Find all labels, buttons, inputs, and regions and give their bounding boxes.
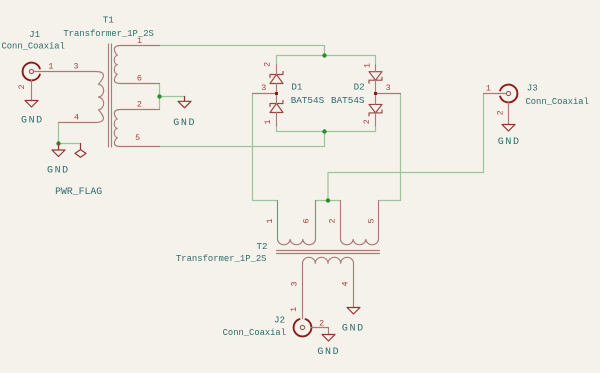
svg-text:J2: J2	[274, 315, 285, 326]
wire T1 pin6 to pin2	[159, 84, 161, 110]
svg-text:1: 1	[363, 63, 373, 68]
J1 pin 1 / T1 pin 3 lead	[34, 71, 96, 73]
wire T1 pin4 down	[58, 123, 60, 144]
diode D2 bottom (BAT54S)	[369, 104, 382, 116]
svg-text:Conn_Coaxial: Conn_Coaxial	[2, 42, 65, 52]
svg-text:1: 1	[289, 307, 299, 312]
svg-text:6: 6	[137, 74, 142, 84]
wire D2 pin3 down to T2 pin5	[379, 94, 401, 201]
D2 leads	[375, 65, 377, 126]
svg-text:2: 2	[362, 119, 372, 124]
svg-text:BAT54S: BAT54S	[331, 95, 365, 106]
svg-text:5: 5	[135, 133, 140, 143]
D1 pin 3 lead	[253, 93, 277, 95]
ground at J2 pin 2	[322, 335, 335, 342]
svg-text:Conn_Coaxial: Conn_Coaxial	[223, 328, 286, 338]
svg-text:1: 1	[137, 36, 142, 46]
junction T2 center tap	[326, 198, 330, 202]
ground below T2 pin 4	[347, 308, 360, 315]
diode D2 top (BAT54S)	[369, 72, 382, 84]
svg-text:GND: GND	[342, 324, 365, 335]
svg-text:1: 1	[265, 218, 275, 223]
connector J3 body	[500, 85, 517, 103]
svg-text:D2: D2	[354, 81, 365, 92]
ground at T1 pin4 junction	[52, 144, 65, 157]
J3 pin 1 lead	[484, 93, 507, 95]
svg-text:BAT54S: BAT54S	[291, 95, 325, 106]
svg-text:2: 2	[262, 62, 272, 67]
D1 pin3 node square	[275, 92, 278, 95]
svg-text:GND: GND	[173, 118, 196, 129]
wire bridge left bottom stub	[276, 126, 278, 132]
svg-text:4: 4	[340, 281, 350, 286]
svg-text:2: 2	[496, 110, 506, 115]
svg-text:1: 1	[263, 119, 273, 124]
wire T2 pin6 to pin2	[316, 200, 341, 202]
wire T1 pin1 to bridge top	[160, 46, 325, 56]
connector J1 body	[23, 63, 40, 81]
T1 pin 4 lead	[59, 122, 96, 124]
connector J2 body	[294, 319, 312, 336]
svg-text:3: 3	[386, 83, 391, 93]
wire T1 pin5 horizontal	[160, 146, 325, 148]
wire junction to PWR_FLAG	[59, 143, 81, 145]
svg-text:Transformer_1P_2S: Transformer_1P_2S	[176, 254, 267, 264]
ground at T1 center tap	[178, 97, 191, 108]
svg-text:J3: J3	[527, 83, 538, 94]
svg-text:T1: T1	[103, 15, 115, 26]
svg-text:2: 2	[319, 319, 324, 329]
svg-text:3: 3	[290, 281, 300, 286]
svg-text:GND: GND	[21, 116, 44, 127]
transformer T1 secondary winding 1	[114, 46, 159, 84]
svg-text:GND: GND	[47, 165, 70, 176]
wire T1 center tap to GND	[160, 96, 185, 98]
wire bridge right top stub	[375, 56, 377, 66]
svg-text:3: 3	[73, 62, 78, 72]
wire D1 pin3 down to T2 pin1	[253, 94, 278, 201]
transformer T1 core	[109, 44, 112, 147]
svg-text:1: 1	[486, 84, 491, 94]
svg-text:3: 3	[261, 83, 266, 93]
junction T1 center tap	[157, 94, 161, 98]
wire bridge top rail	[277, 55, 376, 57]
svg-text:6: 6	[302, 218, 312, 223]
junction at bridge top	[322, 53, 326, 57]
svg-text:Conn_Coaxial: Conn_Coaxial	[526, 97, 589, 107]
svg-text:5: 5	[367, 218, 377, 223]
wire T2 center tap to J3 pin1	[328, 94, 484, 201]
transformer T1 primary winding	[96, 72, 104, 123]
T2 pin 3 / J2 pin 1 lead	[302, 263, 304, 319]
D1 leads	[276, 65, 278, 126]
diode D1 top (BAT54S)	[270, 72, 283, 84]
transformer T2 secondary winding 1	[278, 201, 316, 245]
svg-text:2: 2	[17, 84, 27, 89]
svg-text:PWR_FLAG: PWR_FLAG	[55, 186, 102, 197]
D2 pin 3 lead	[376, 93, 401, 95]
svg-text:4: 4	[74, 112, 79, 122]
svg-text:2: 2	[328, 218, 338, 223]
J1 pin 2 lead	[31, 80, 33, 100]
transformer T1 secondary winding 2	[114, 110, 159, 147]
J3 pin 2 lead	[508, 102, 510, 124]
svg-text:1: 1	[48, 62, 53, 72]
transformer T2 primary winding	[303, 257, 354, 263]
wire bridge bottom rail	[277, 131, 376, 133]
power flag PWR_FLAG	[75, 144, 86, 158]
ground below J3	[502, 125, 515, 132]
J2 pin 2 lead	[311, 328, 328, 335]
svg-text:GND: GND	[317, 347, 340, 358]
diode D1 bottom (BAT54S)	[270, 101, 283, 113]
ground below J1	[25, 101, 38, 108]
svg-text:2: 2	[137, 100, 142, 110]
svg-text:T2: T2	[256, 241, 267, 252]
T2 pin 4 lead	[353, 263, 355, 307]
junction at bridge bottom	[322, 129, 326, 133]
svg-text:J1: J1	[29, 29, 41, 40]
wire bridge left top stub	[276, 56, 278, 66]
wire bridge bottom to T1 pin5 wire	[324, 132, 326, 147]
D2 pin3 node square	[374, 92, 377, 95]
wire bridge right bottom stub	[375, 126, 377, 132]
transformer T2 secondary winding 2	[341, 201, 379, 245]
junction T1 pin4 GND	[56, 141, 60, 145]
transformer T2 core	[277, 251, 380, 254]
svg-text:D1: D1	[291, 81, 303, 92]
svg-text:GND: GND	[498, 137, 521, 148]
